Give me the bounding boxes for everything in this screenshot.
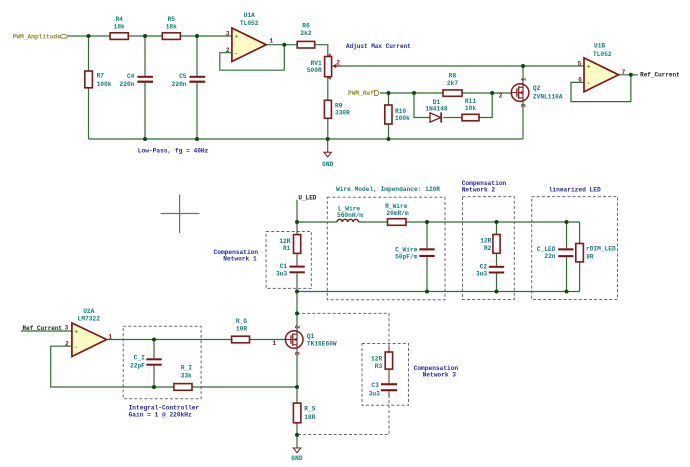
svg-text:C_Wire: C_Wire xyxy=(395,246,418,253)
svg-text:R3: R3 xyxy=(375,363,383,370)
svg-text:GND: GND xyxy=(291,455,302,462)
svg-text:R9: R9 xyxy=(335,103,343,110)
svg-text:2k2: 2k2 xyxy=(300,30,311,37)
svg-text:18R: 18R xyxy=(304,414,315,421)
svg-text:C5: C5 xyxy=(179,73,187,80)
svg-text:50pF/m: 50pF/m xyxy=(395,253,418,260)
svg-text:R4: R4 xyxy=(115,16,123,23)
svg-text:-: - xyxy=(587,80,591,87)
svg-text:220n: 220n xyxy=(172,81,187,88)
svg-text:1: 1 xyxy=(521,77,528,81)
svg-text:Network 2: Network 2 xyxy=(462,187,496,194)
svg-text:linearized LED: linearized LED xyxy=(549,187,601,194)
svg-text:rDIM_LED: rDIM_LED xyxy=(586,245,616,252)
svg-text:Ref_Current: Ref_Current xyxy=(640,72,680,79)
svg-text:10k: 10k xyxy=(465,105,476,112)
svg-text:U1A: U1A xyxy=(244,12,255,19)
svg-text:560nH/m: 560nH/m xyxy=(337,212,363,219)
svg-text:R_G: R_G xyxy=(236,318,247,325)
svg-text:12R: 12R xyxy=(371,355,382,362)
svg-text:2: 2 xyxy=(336,59,340,66)
svg-text:22pF: 22pF xyxy=(130,363,145,370)
svg-text:10R: 10R xyxy=(236,326,247,333)
svg-text:-: - xyxy=(74,344,78,351)
svg-text:C3: C3 xyxy=(371,382,379,389)
svg-text:+: + xyxy=(587,64,591,71)
svg-text:LM7322: LM7322 xyxy=(78,316,101,323)
svg-text:Integral-Controller: Integral-Controller xyxy=(129,404,200,411)
svg-text:R_I: R_I xyxy=(181,365,192,372)
svg-text:7: 7 xyxy=(622,69,626,76)
svg-text:TK16E60W: TK16E60W xyxy=(307,341,337,348)
svg-text:1: 1 xyxy=(272,340,276,347)
svg-text:18k: 18k xyxy=(114,24,125,31)
svg-text:5: 5 xyxy=(578,60,582,67)
svg-text:GND: GND xyxy=(322,161,333,168)
svg-text:R2: R2 xyxy=(484,245,492,252)
svg-text:Network 1: Network 1 xyxy=(223,256,257,263)
svg-text:2: 2 xyxy=(65,340,69,347)
svg-text:18k: 18k xyxy=(166,24,177,31)
svg-text:3u3: 3u3 xyxy=(369,391,380,398)
svg-text:+: + xyxy=(234,34,238,41)
svg-text:U_LED: U_LED xyxy=(298,194,316,201)
svg-text:3: 3 xyxy=(295,352,302,356)
svg-text:C2: C2 xyxy=(480,263,488,270)
svg-text:-: - xyxy=(234,51,238,58)
svg-text:PWM_Amplitude: PWM_Amplitude xyxy=(13,34,62,41)
svg-text:12R: 12R xyxy=(480,238,491,245)
svg-text:8R: 8R xyxy=(586,254,594,261)
svg-text:2: 2 xyxy=(499,93,503,100)
svg-text:3: 3 xyxy=(226,30,230,37)
svg-text:2k7: 2k7 xyxy=(447,80,458,87)
svg-text:C_LED: C_LED xyxy=(537,246,556,253)
svg-text:3u3: 3u3 xyxy=(476,271,487,278)
svg-text:TL052: TL052 xyxy=(240,20,259,27)
svg-text:Gain = 1 @ 220kHz: Gain = 1 @ 220kHz xyxy=(129,412,192,419)
svg-text:R_S: R_S xyxy=(304,406,315,413)
svg-text:100k: 100k xyxy=(97,81,112,88)
svg-text:3: 3 xyxy=(521,104,528,108)
svg-text:6: 6 xyxy=(578,77,582,84)
svg-text:TL052: TL052 xyxy=(593,51,612,58)
svg-text:R7: R7 xyxy=(97,73,105,80)
svg-text:20mR/m: 20mR/m xyxy=(386,210,409,217)
svg-text:C_I: C_I xyxy=(134,354,145,361)
svg-text:Q1: Q1 xyxy=(307,333,315,340)
svg-text:R8: R8 xyxy=(449,72,457,79)
svg-text:220n: 220n xyxy=(120,81,135,88)
svg-text:1: 1 xyxy=(108,334,112,341)
svg-text:Q2: Q2 xyxy=(533,85,541,92)
svg-text:C4: C4 xyxy=(127,73,135,80)
svg-text:500R: 500R xyxy=(307,67,322,74)
svg-text:R1: R1 xyxy=(283,245,291,252)
svg-text:U1B: U1B xyxy=(594,43,605,50)
svg-text:2: 2 xyxy=(295,325,302,329)
svg-text:1: 1 xyxy=(269,38,273,45)
svg-text:Wire Model, Impendance: 120R: Wire Model, Impendance: 120R xyxy=(336,186,440,193)
svg-text:3u3: 3u3 xyxy=(276,270,287,277)
svg-text:3: 3 xyxy=(64,325,68,332)
svg-text:100k: 100k xyxy=(395,115,410,122)
svg-text:PWM_Ref: PWM_Ref xyxy=(348,90,374,97)
svg-text:R5: R5 xyxy=(168,16,176,23)
svg-text:330R: 330R xyxy=(335,110,350,117)
svg-text:1N4148: 1N4148 xyxy=(425,105,448,112)
svg-text:R_Wire: R_Wire xyxy=(385,203,408,210)
svg-text:Low-Pass, fg = 40Hz: Low-Pass, fg = 40Hz xyxy=(138,147,209,154)
svg-text:12R: 12R xyxy=(279,238,290,245)
svg-text:33k: 33k xyxy=(181,373,192,380)
svg-text:+: + xyxy=(74,329,78,336)
svg-text:Network 3: Network 3 xyxy=(423,372,457,379)
svg-text:C1: C1 xyxy=(280,263,288,270)
svg-text:ZVNL110A: ZVNL110A xyxy=(533,93,563,100)
svg-text:22n: 22n xyxy=(544,253,555,260)
svg-text:Ref_Current: Ref_Current xyxy=(23,325,63,332)
svg-text:2: 2 xyxy=(226,47,230,54)
svg-text:Adjust Max Current: Adjust Max Current xyxy=(346,43,411,50)
svg-text:RV1: RV1 xyxy=(311,60,322,67)
svg-text:U2A: U2A xyxy=(83,308,94,315)
svg-text:R6: R6 xyxy=(302,23,310,30)
